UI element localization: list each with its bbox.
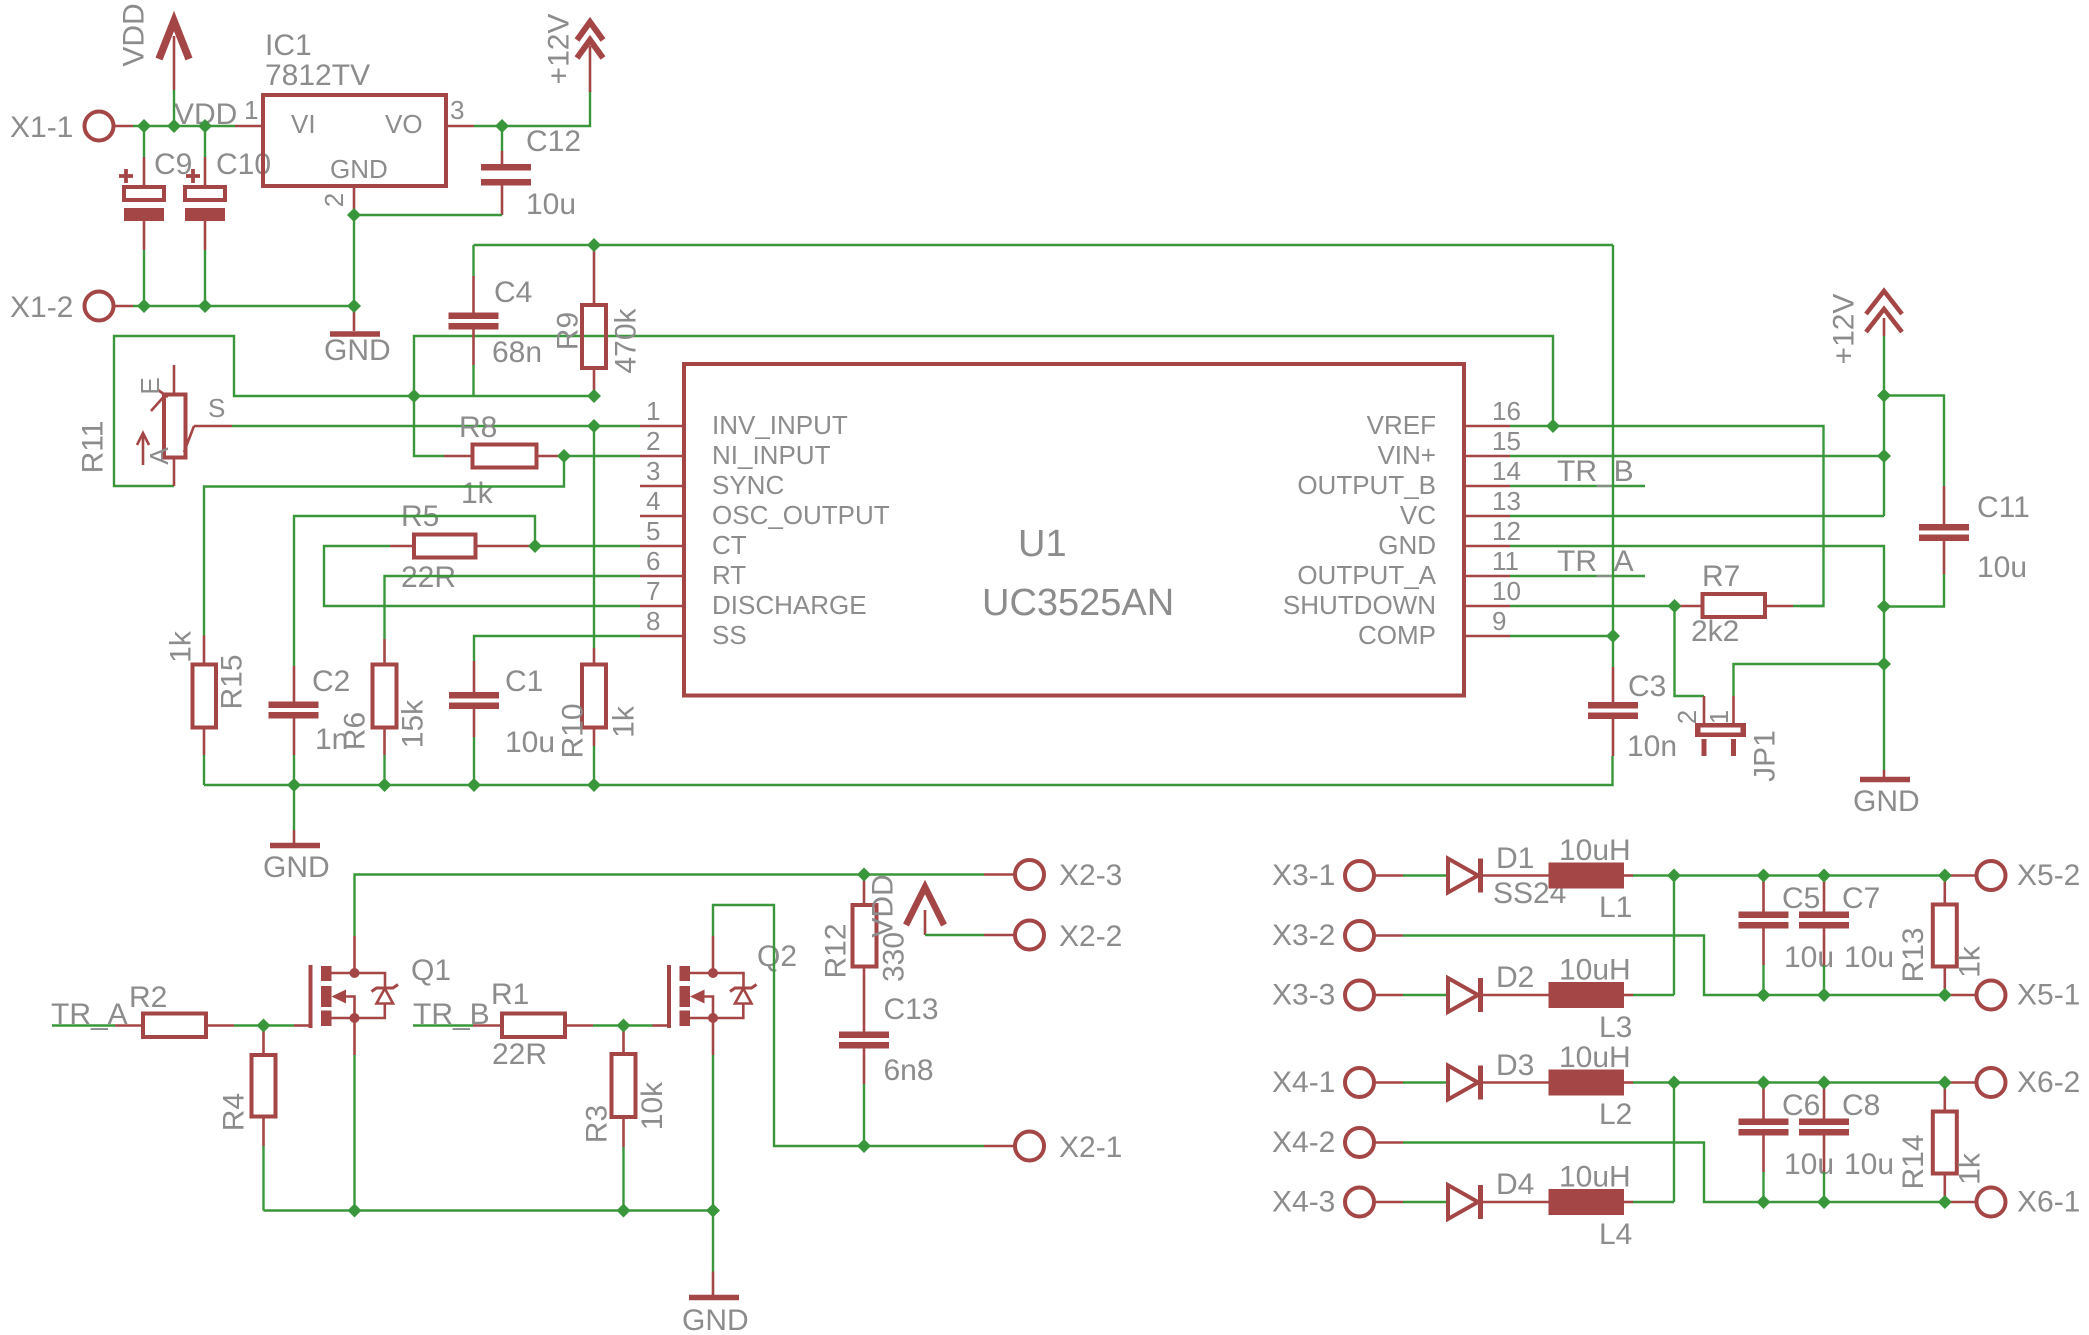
svg-text:RT: RT <box>712 560 746 590</box>
capacitor C12 <box>481 125 581 221</box>
svg-text:GND: GND <box>1853 785 1920 818</box>
node junction C7 top <box>1817 869 1831 883</box>
connector pad X5-2 <box>1947 859 2080 892</box>
wire L2 node down to L4 node <box>1673 1083 1675 1203</box>
svg-text:NI_INPUT: NI_INPUT <box>712 440 831 470</box>
node junction pin2/C12 <box>347 208 361 222</box>
capacitor C9 (polarized) <box>119 126 192 306</box>
svg-text:C8: C8 <box>1842 1089 1880 1122</box>
svg-text:L3: L3 <box>1599 1011 1632 1044</box>
svg-text:5: 5 <box>646 516 660 546</box>
wire VO to +12V arrow <box>502 90 590 126</box>
capacitor C4 <box>449 245 543 396</box>
svg-text:2: 2 <box>1672 710 1702 724</box>
svg-text:C2: C2 <box>312 665 350 698</box>
svg-text:SHUTDOWN: SHUTDOWN <box>1283 590 1436 620</box>
connector pad X4-2 <box>1272 1126 1403 1159</box>
node junction X1-2/C10 <box>198 299 212 313</box>
svg-text:X4-1: X4-1 <box>1272 1066 1335 1099</box>
wire R5 left to pin7 DISCHARGE <box>324 546 640 606</box>
wire pin15 VIN+ to +12V rail <box>1510 455 1884 457</box>
capacitor C13 6n8 <box>839 993 939 1146</box>
resistor R9 470k <box>552 245 643 396</box>
node junction GND/JP1 <box>1877 657 1891 671</box>
svg-text:R2: R2 <box>129 981 167 1014</box>
svg-text:TR_B: TR_B <box>1557 455 1634 488</box>
wire X3-2 return to filter bottom <box>1403 936 1947 996</box>
svg-text:11: 11 <box>1492 546 1519 576</box>
svg-text:Q2: Q2 <box>757 940 797 973</box>
svg-text:VI: VI <box>291 109 316 139</box>
svg-text:10u: 10u <box>1844 941 1894 974</box>
svg-text:E: E <box>135 377 165 394</box>
wire C2 top link <box>294 516 535 666</box>
svg-text:GND: GND <box>330 154 388 184</box>
diode D2 <box>1448 961 1549 1012</box>
resistor R8 1k <box>414 396 564 510</box>
pin 3 SYNC <box>640 456 784 500</box>
svg-text:2: 2 <box>646 426 660 456</box>
node junction R13 top <box>1938 869 1952 883</box>
svg-text:X3-1: X3-1 <box>1272 859 1335 892</box>
node junction C10 <box>198 119 212 133</box>
wire X1-1 to IC1 VI <box>114 125 236 128</box>
svg-text:10u: 10u <box>1844 1148 1894 1181</box>
wire JP1 pin2 drop <box>1675 606 1705 696</box>
svg-text:R9: R9 <box>552 312 585 350</box>
svg-text:22R: 22R <box>401 561 456 594</box>
connector pad X6-2 <box>1947 1066 2080 1099</box>
power symbol +12V (top) <box>543 14 604 92</box>
svg-text:OSC_OUTPUT: OSC_OUTPUT <box>712 500 890 530</box>
wire JP1 pin1 to GND <box>1734 664 1885 696</box>
svg-text:C12: C12 <box>526 125 581 158</box>
svg-text:9: 9 <box>1492 606 1506 636</box>
node junction R14 bottom <box>1938 1195 1952 1209</box>
svg-text:6n8: 6n8 <box>884 1054 934 1087</box>
pin 6 RT <box>640 546 746 590</box>
pin 7 DISCHARGE <box>640 576 867 620</box>
wire source rail <box>264 1209 714 1211</box>
pin 11 OUTPUT_A <box>1297 546 1519 590</box>
svg-text:A: A <box>144 447 174 465</box>
node junction C8 top <box>1817 1076 1831 1090</box>
wire gate lead Q1 <box>264 1024 295 1026</box>
svg-text:C1: C1 <box>505 665 543 698</box>
wire pin5 CT net <box>535 545 640 547</box>
svg-text:R13: R13 <box>1897 927 1930 982</box>
svg-text:C11: C11 <box>1977 491 2030 524</box>
wire L1 node down to L3 node <box>1673 876 1675 996</box>
svg-text:U1: U1 <box>1018 523 1067 565</box>
pin 14 OUTPUT_B <box>1297 456 1521 500</box>
svg-text:C7: C7 <box>1842 882 1880 915</box>
svg-text:R14: R14 <box>1897 1134 1930 1189</box>
svg-text:13: 13 <box>1492 486 1521 516</box>
svg-text:VREF: VREF <box>1367 410 1436 440</box>
svg-text:1k: 1k <box>608 705 641 738</box>
wire Q2 drain to X2-1 <box>713 905 984 1146</box>
svg-text:X6-2: X6-2 <box>2017 1066 2080 1099</box>
svg-text:15k: 15k <box>397 699 430 748</box>
ground symbol GND (rail) <box>263 785 330 884</box>
power symbol VDD (X2-2) <box>867 874 985 937</box>
node junction R13 bottom <box>1938 988 1952 1002</box>
node junction +12V/C11 top <box>1877 389 1891 403</box>
svg-text:X4-2: X4-2 <box>1272 1126 1335 1159</box>
node junction R14 top <box>1938 1076 1952 1090</box>
svg-text:1: 1 <box>646 396 660 426</box>
pin 2 NI_INPUT <box>640 426 831 470</box>
wire gate lead Q2 <box>624 1024 653 1026</box>
connector pad X5-1 <box>1947 979 2080 1012</box>
wire Q2 source to rail <box>712 1055 714 1211</box>
svg-text:10uH: 10uH <box>1559 954 1631 987</box>
svg-text:VDD: VDD <box>867 874 900 937</box>
svg-text:C3: C3 <box>1628 670 1666 703</box>
wire INV node down to R10 <box>593 426 595 648</box>
node junction C2/GND rail <box>287 778 301 792</box>
node junction R9/C4 bottom <box>587 389 601 403</box>
resistor R7 2k2 <box>1675 560 1824 648</box>
wire VREF link (y=336) <box>414 336 1553 426</box>
svg-text:10u: 10u <box>1784 1148 1834 1181</box>
pin 9 COMP <box>1358 606 1510 650</box>
svg-text:X5-2: X5-2 <box>2017 859 2080 892</box>
svg-text:VDD: VDD <box>118 3 151 66</box>
pin 13 VC <box>1400 486 1521 530</box>
svg-text:R10: R10 <box>557 703 590 758</box>
pin 1 INV_INPUT <box>640 396 848 440</box>
capacitor C7 10u <box>1799 876 1894 996</box>
svg-text:S: S <box>208 393 225 423</box>
resistor R6 15k <box>339 639 430 785</box>
diode D4 <box>1448 1168 1549 1219</box>
svg-text:C4: C4 <box>494 276 532 309</box>
svg-text:L1: L1 <box>1599 891 1632 924</box>
node junction R8/R15 <box>557 449 571 463</box>
svg-text:X1-1: X1-1 <box>10 111 73 144</box>
svg-text:X2-3: X2-3 <box>1059 859 1122 892</box>
svg-text:+12V: +12V <box>543 14 576 85</box>
inductor L3 10uH <box>1549 954 1634 1045</box>
svg-text:R12: R12 <box>820 923 853 978</box>
svg-text:4: 4 <box>646 486 660 516</box>
wire L2 to X6-2 <box>1633 1081 1947 1083</box>
wire pin11 OUTPUT_A stub <box>1510 575 1645 577</box>
svg-text:D3: D3 <box>1496 1049 1534 1082</box>
pin 1 IC1 VI <box>235 95 263 126</box>
node junction R6/GND rail <box>378 778 392 792</box>
svg-text:X6-1: X6-1 <box>2017 1186 2080 1219</box>
svg-text:+12V: +12V <box>1828 294 1861 365</box>
wire pin12 GND to right GND drop <box>1510 546 1884 770</box>
connector pad X3-1 <box>1272 859 1448 892</box>
capacitor C8 10u <box>1799 1083 1894 1203</box>
power symbol VDD (top left) <box>118 3 190 126</box>
wire L1 to X5-2 <box>1633 874 1947 876</box>
svg-text:16: 16 <box>1492 396 1521 426</box>
wire COMP rail down <box>1612 245 1614 667</box>
wire Q1 source to rail <box>353 1055 355 1211</box>
svg-text:10uH: 10uH <box>1559 1161 1631 1194</box>
IC U1 UC3525AN <box>684 364 1464 696</box>
svg-text:10u: 10u <box>1977 551 2027 584</box>
ground symbol GND (right) <box>1853 770 1920 818</box>
node junction L1/L3 tie <box>1667 869 1681 883</box>
capacitor C10 (polarized) <box>185 126 271 306</box>
node junction VDD arrow <box>167 119 181 133</box>
svg-text:12: 12 <box>1492 516 1521 546</box>
node junction C5 top <box>1757 869 1771 883</box>
wire R8 to pin2 NI_INPUT <box>564 455 640 457</box>
wire pin10 SHUTDOWN to R7 <box>1510 605 1680 607</box>
svg-text:1k: 1k <box>1954 945 1987 978</box>
node junction R2/R4/Q1 gate <box>257 1019 271 1033</box>
wire TR_A to R2 <box>52 1024 115 1026</box>
svg-text:10n: 10n <box>1627 730 1677 763</box>
voltage regulator IC1 7812TV <box>263 29 446 186</box>
node junction X2-3/R12 <box>857 868 871 882</box>
node junction Q1 source/rail <box>348 1204 362 1218</box>
ground symbol GND (bottom) <box>682 1211 749 1335</box>
svg-text:GND: GND <box>324 334 391 367</box>
svg-text:R15: R15 <box>216 654 249 709</box>
wire NI node down to R15 <box>204 456 564 636</box>
pin 12 GND <box>1378 516 1521 560</box>
svg-text:R1: R1 <box>491 978 529 1011</box>
svg-text:7: 7 <box>646 576 660 606</box>
node junction R10/GND rail <box>587 778 601 792</box>
capacitor C5 10u <box>1739 876 1835 996</box>
svg-text:8: 8 <box>646 606 660 636</box>
svg-text:2k2: 2k2 <box>1691 615 1739 648</box>
node junction C1/GND rail <box>467 778 481 792</box>
resistor R2 <box>115 981 264 1037</box>
svg-text:INV_INPUT: INV_INPUT <box>712 410 848 440</box>
svg-text:R3: R3 <box>581 1105 614 1143</box>
svg-text:X4-3: X4-3 <box>1272 1186 1335 1219</box>
node junction VREF/link <box>1546 419 1560 433</box>
node junction X1-2/C9 <box>137 299 151 313</box>
wire X1-2 to GND node <box>114 305 355 308</box>
diode D1 SS24 <box>1448 842 1566 910</box>
wire L4 to tie point <box>1633 1201 1674 1203</box>
connector pad X2-1 <box>984 1131 1122 1164</box>
node junction Q2 source/rail <box>706 1204 720 1218</box>
svg-text:C6: C6 <box>1782 1089 1820 1122</box>
capacitor C3 10n <box>1588 667 1677 763</box>
ground symbol GND (IC1) <box>324 306 391 367</box>
wire pin6 RT to R6 <box>385 576 641 639</box>
svg-text:D4: D4 <box>1496 1168 1534 1201</box>
wire wiper S to pin1 INV_INPUT <box>232 425 640 427</box>
svg-text:1: 1 <box>244 95 258 125</box>
svg-text:6: 6 <box>646 546 660 576</box>
pin 8 SS <box>640 606 747 650</box>
node junction C6 top <box>1757 1076 1771 1090</box>
svg-text:SS: SS <box>712 620 747 650</box>
svg-text:TR_A: TR_A <box>1557 545 1634 578</box>
node junction GND/C11 bottom <box>1877 600 1891 614</box>
node junction INV vertical <box>587 419 601 433</box>
svg-text:10: 10 <box>1492 576 1521 606</box>
svg-text:L2: L2 <box>1599 1098 1632 1131</box>
svg-text:GND: GND <box>682 1304 749 1335</box>
svg-text:330: 330 <box>878 932 911 982</box>
wire X4-2 return to filter bottom <box>1403 1143 1947 1203</box>
svg-text:D2: D2 <box>1496 961 1534 994</box>
wire pin13 VC to +12V rail <box>1510 515 1884 517</box>
resistor R13 1k <box>1897 876 1987 996</box>
connector pad X4-1 <box>1272 1066 1448 1099</box>
svg-text:GND: GND <box>263 851 330 884</box>
wire L3 to tie point <box>1633 994 1674 996</box>
svg-text:C5: C5 <box>1782 882 1820 915</box>
wire R11-A loop to INV node <box>114 336 594 486</box>
node junction COMP/C3/rail <box>1606 629 1620 643</box>
svg-text:UC3525AN: UC3525AN <box>982 582 1174 624</box>
resistor R1 22R <box>473 978 624 1071</box>
pin 5 CT <box>640 516 747 560</box>
connector pad X3-2 <box>1272 919 1403 952</box>
wire pin16 VREF to R7 net <box>1510 426 1824 606</box>
wire GND rail (y=785) <box>204 756 1613 785</box>
diode D3 <box>1448 1049 1549 1100</box>
svg-text:22R: 22R <box>492 1038 547 1071</box>
svg-text:GND: GND <box>1378 530 1436 560</box>
resistor R5 22R <box>390 500 535 594</box>
wire pin9 COMP to C3 <box>1510 635 1613 637</box>
wire Q1 drain to X2-3 <box>355 875 985 937</box>
svg-text:OUTPUT_A: OUTPUT_A <box>1297 560 1436 590</box>
svg-text:10u: 10u <box>505 726 555 759</box>
connector pad X6-1 <box>1947 1186 2080 1219</box>
svg-text:L4: L4 <box>1599 1218 1632 1251</box>
svg-text:1k: 1k <box>1954 1152 1987 1185</box>
wire C12 bottom to IC1 GND <box>354 214 502 216</box>
svg-text:10uH: 10uH <box>1559 834 1631 867</box>
svg-text:1k: 1k <box>461 477 494 510</box>
svg-text:CT: CT <box>712 530 747 560</box>
svg-text:470k: 470k <box>610 307 643 373</box>
node junction X1-1/C9 <box>137 119 151 133</box>
svg-text:R7: R7 <box>1702 560 1740 593</box>
jumper JP1 <box>1672 696 1782 782</box>
capacitor C1 10u <box>449 661 555 785</box>
svg-text:VC: VC <box>1400 500 1436 530</box>
node junction R11/R8/VREF <box>407 389 421 403</box>
pin 10 SHUTDOWN <box>1283 576 1521 620</box>
node junction SHUTDOWN/R7/JP1 <box>1668 599 1682 613</box>
svg-text:X5-1: X5-1 <box>2017 979 2080 1012</box>
svg-text:R6: R6 <box>339 712 372 750</box>
svg-text:15: 15 <box>1492 426 1521 456</box>
pin 2 IC1 GND <box>319 186 354 306</box>
connector pad X3-3 <box>1272 979 1448 1012</box>
svg-text:10u: 10u <box>526 188 576 221</box>
node junction +12V/VIN+ <box>1877 449 1891 463</box>
power symbol +12V (right) <box>1828 291 1903 516</box>
connector pad X2-2 <box>984 920 1122 953</box>
svg-text:X2-2: X2-2 <box>1059 920 1122 953</box>
node junction C5 bottom <box>1757 988 1771 1002</box>
pin 15 VIN+ <box>1377 426 1520 470</box>
connector pad X2-3 <box>984 859 1122 892</box>
node junction R3/rail <box>617 1204 631 1218</box>
resistor R15 1k <box>165 630 249 785</box>
node junction L2/L4 tie <box>1667 1076 1681 1090</box>
svg-text:COMP: COMP <box>1358 620 1436 650</box>
wire TR_B to R1 <box>413 1024 473 1026</box>
pin 16 VREF <box>1367 396 1521 440</box>
transistor Q2 (n-MOSFET) <box>653 936 798 1055</box>
svg-text:68n: 68n <box>492 336 542 369</box>
svg-text:DISCHARGE: DISCHARGE <box>712 590 867 620</box>
svg-text:VIN+: VIN+ <box>1377 440 1436 470</box>
resistor R10 1k <box>557 648 641 785</box>
node junction C13/X2-1 <box>857 1139 871 1153</box>
svg-text:X2-1: X2-1 <box>1059 1131 1122 1164</box>
svg-text:VO: VO <box>385 109 423 139</box>
svg-text:2: 2 <box>319 193 349 207</box>
wire COMP rail (y=245) <box>474 244 1614 246</box>
svg-text:3: 3 <box>450 95 464 125</box>
capacitor C2 1n <box>269 665 351 785</box>
node junction C6 bottom <box>1757 1195 1771 1209</box>
svg-text:JP1: JP1 <box>1749 730 1782 782</box>
svg-text:Q1: Q1 <box>411 954 451 987</box>
svg-text:1k: 1k <box>165 630 198 663</box>
svg-text:R4: R4 <box>218 1093 251 1131</box>
wire pin14 OUTPUT_B stub <box>1510 485 1645 487</box>
svg-text:10k: 10k <box>636 1081 669 1130</box>
connector pad X4-3 <box>1272 1186 1448 1219</box>
resistor R3 10k <box>581 1026 670 1211</box>
svg-text:R11: R11 <box>77 421 110 474</box>
connector pad X1-2 <box>10 291 114 324</box>
pin 3 IC1 VO <box>446 95 502 126</box>
svg-text:R8: R8 <box>459 411 497 444</box>
inductor L1 10uH <box>1549 834 1634 924</box>
transistor Q1 (n-MOSFET) <box>294 936 451 1055</box>
connector pad X1-1 <box>10 111 114 144</box>
resistor R12 330 <box>820 875 911 1032</box>
svg-text:X3-3: X3-3 <box>1272 979 1335 1012</box>
node junction R9 top <box>587 238 601 252</box>
node junction VO/C12 <box>495 119 509 133</box>
potentiometer R11 <box>77 365 233 486</box>
svg-text:D1: D1 <box>1496 842 1534 875</box>
svg-text:C13: C13 <box>884 993 939 1026</box>
inductor L4 10uH <box>1549 1161 1634 1252</box>
svg-text:X1-2: X1-2 <box>10 291 73 324</box>
svg-text:SYNC: SYNC <box>712 470 784 500</box>
node junction R5/C2/CT <box>528 539 542 553</box>
svg-text:OUTPUT_B: OUTPUT_B <box>1297 470 1436 500</box>
svg-text:3: 3 <box>646 456 660 486</box>
capacitor C11 10u <box>1884 396 2030 607</box>
wire pin8 SS to C1 <box>474 636 640 661</box>
pin 4 OSC_OUTPUT <box>640 486 890 530</box>
svg-text:10u: 10u <box>1784 941 1834 974</box>
node junction C8 bottom <box>1817 1195 1831 1209</box>
svg-text:1: 1 <box>1704 710 1734 724</box>
svg-text:14: 14 <box>1492 456 1521 486</box>
svg-text:10uH: 10uH <box>1559 1041 1631 1074</box>
capacitor C6 10u <box>1739 1083 1835 1203</box>
node junction R1/R3/Q2 gate <box>617 1019 631 1033</box>
